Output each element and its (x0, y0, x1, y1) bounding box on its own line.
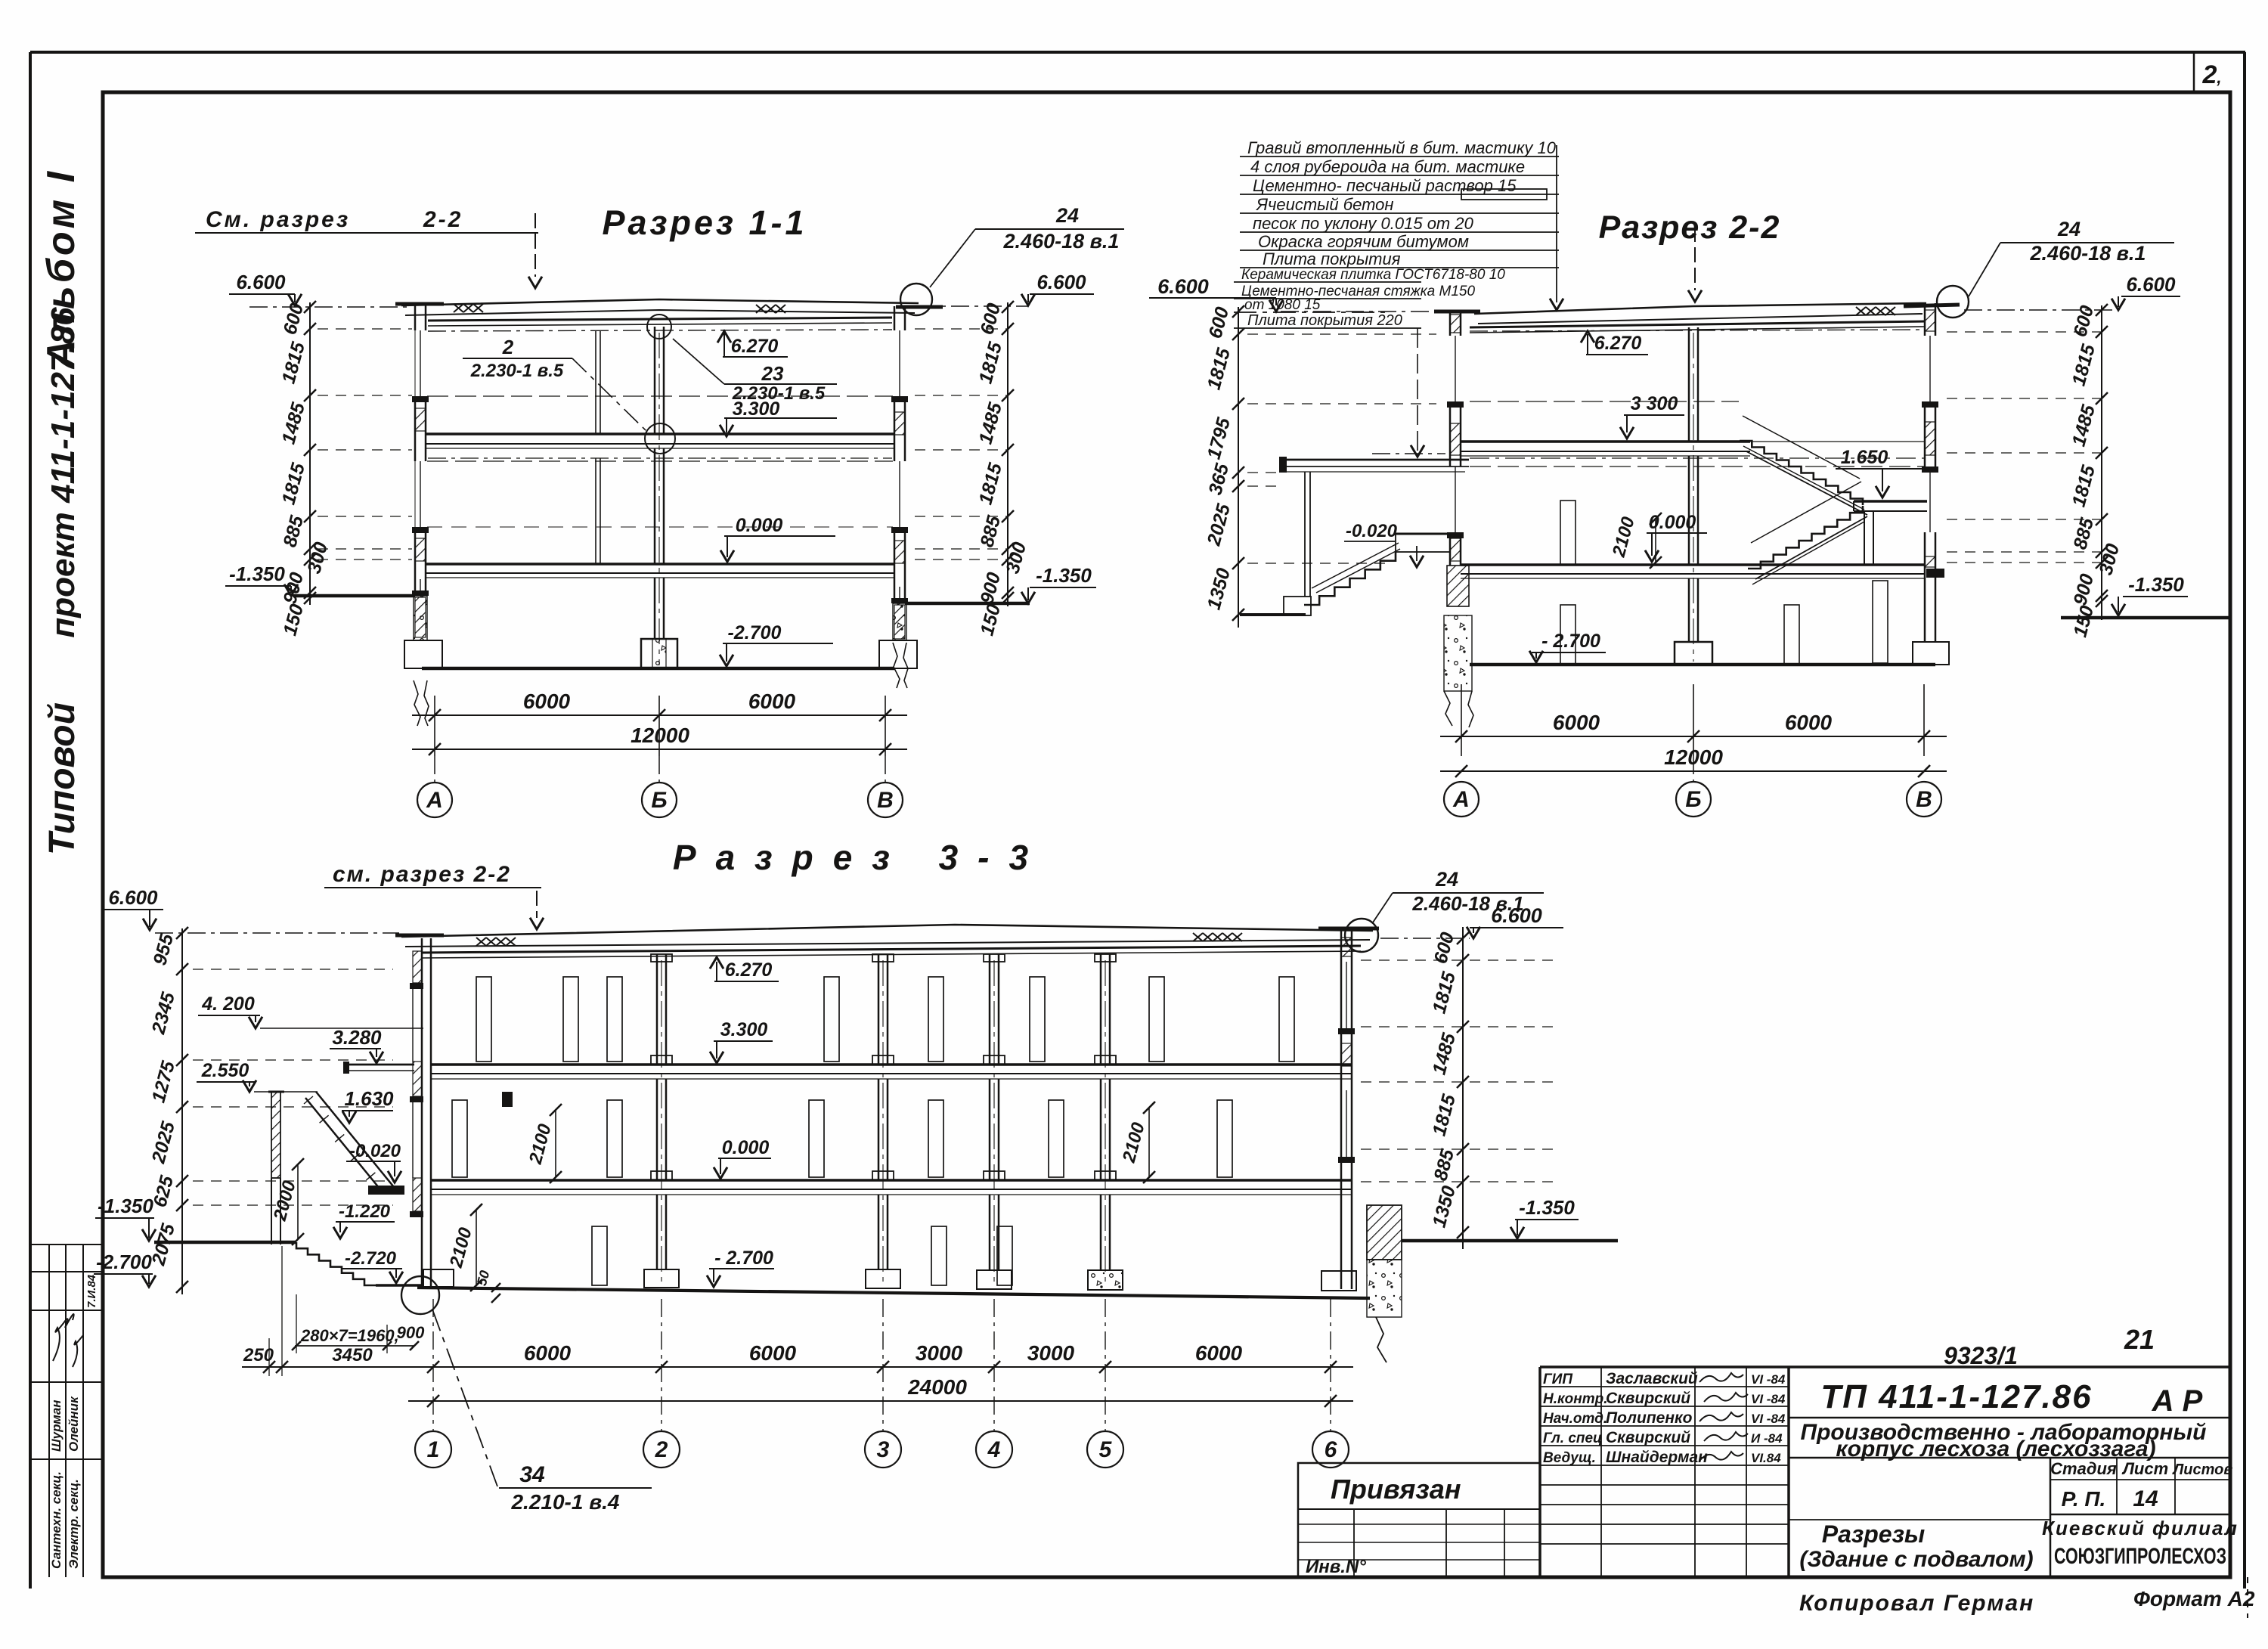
svg-text:3000: 3000 (916, 1341, 963, 1365)
svg-text:6.270: 6.270 (731, 336, 779, 357)
1-1 callout circle node at 3.300 (645, 423, 675, 454)
svg-text:Разрезы: Разрезы (1822, 1520, 1925, 1548)
svg-text:Инв.N°: Инв.N° (1306, 1557, 1366, 1577)
3-3 top floor door frames (476, 977, 491, 1062)
svg-text:900: 900 (397, 1323, 425, 1342)
svg-text:Заславский: Заславский (1606, 1370, 1698, 1387)
svg-text:Копировал Герман: Копировал Герман (1799, 1591, 2034, 1616)
3-3 right chain level leaders (1361, 959, 1557, 961)
svg-text:2: 2 (655, 1437, 668, 1462)
svg-text:Стадия: Стадия (2050, 1459, 2117, 1478)
svg-text:6: 6 (1325, 1437, 1337, 1462)
2-2 porch canopy (1281, 459, 1469, 461)
svg-text:-1.350: -1.350 (2128, 573, 2184, 596)
svg-text:Типовой: Типовой (42, 702, 82, 855)
svg-text:- 2.700: - 2.700 (1541, 631, 1600, 652)
3-3 roof hatch strips (476, 938, 486, 946)
svg-text:3.300: 3.300 (720, 1019, 768, 1040)
2-2 right chain level leaders (1947, 331, 2102, 333)
roof note leader arrow (1556, 145, 1557, 302)
svg-text:Окраска горячим битумом: Окраска горячим битумом (1258, 232, 1469, 251)
svg-text:Разрез 3-3: Разрез 3-3 (673, 838, 1048, 877)
2-2 ceiling slab (1470, 321, 1925, 327)
stage/sheet sub-table (1789, 1519, 2050, 1520)
2-2 left dimension chain (1238, 307, 1239, 628)
2-2 interior door frames (1560, 501, 1576, 565)
2-2 landing support wall (1864, 511, 1865, 565)
svg-text:корпус лесхоза (лесхоззага): корпус лесхоза (лесхоззага) (1836, 1437, 2155, 1461)
svg-text:А Р: А Р (2152, 1384, 2203, 1418)
svg-text:6.270: 6.270 (1594, 333, 1642, 354)
svg-text:4 слоя рубероида на бит.: 4 слоя рубероида на бит. мастике (1250, 157, 1525, 176)
2-2 porch entrance landing (1396, 533, 1450, 535)
signature squiggles (1699, 1373, 1743, 1382)
3-3 vertical dim 2000 (297, 1164, 299, 1239)
svg-text:Р. П.: Р. П. (2062, 1487, 2106, 1511)
svg-text:Шнайдерман: Шнайдерман (1606, 1449, 1708, 1466)
svg-text:34: 34 (519, 1462, 545, 1487)
svg-text:Ведущ.: Ведущ. (1543, 1450, 1596, 1466)
3-3 axis circles (432, 1299, 434, 1430)
section 2-2 cut mark over 1-1 (534, 213, 536, 277)
1-1 wall foundations below ground (414, 596, 427, 640)
svg-text:Нач.отд.: Нач.отд. (1543, 1411, 1607, 1427)
svg-text:2.460-18 в.1: 2.460-18 в.1 (1411, 892, 1523, 915)
2-2 bottom dimension row 6000+6000 (1461, 684, 1462, 756)
1-1 roof hatch strips (454, 304, 463, 312)
2-2 left wall А (1449, 312, 1452, 336)
1-1 axis circles (434, 756, 435, 783)
svg-text:VI.84: VI.84 (1751, 1451, 1781, 1465)
2-2 axis circles (1693, 756, 1694, 782)
svg-text:5: 5 (1099, 1437, 1113, 1462)
3-3 bottom dimension row 24000 (408, 1400, 1353, 1402)
2-2 basement floor (1470, 663, 1935, 667)
svg-text:3.300: 3.300 (733, 398, 780, 420)
3-3 roof slab (401, 925, 1373, 937)
1-1 bottom dimension row 6000+6000 (434, 696, 435, 756)
svg-text:-1.350: -1.350 (98, 1195, 153, 1217)
svg-text:3 300: 3 300 (1631, 393, 1678, 414)
svg-text:2-2: 2-2 (423, 207, 463, 232)
1-1 second floor slab 3.300 (426, 432, 894, 435)
1-1 ground line right (905, 602, 1030, 606)
attachment table Привязан (1298, 1463, 1540, 1577)
1-1 callout circle node 2 top (647, 315, 671, 339)
svg-text:А: А (426, 788, 443, 813)
2-2 column Б footing (1675, 642, 1712, 665)
2-2 porch pedestal (1284, 597, 1311, 615)
1-1 ceiling slab (428, 318, 892, 321)
signature table lower empty rows (1540, 1484, 1789, 1486)
2-2 stair upper flight (1740, 441, 1863, 505)
3-3 floor slab 3.300 (431, 1063, 1352, 1066)
3-3 vertical dims 2100 (555, 1110, 556, 1177)
2-2 right dimension chain (2101, 305, 2102, 620)
svg-text:-1.220: -1.220 (339, 1201, 391, 1222)
1-1 left wall А (414, 305, 417, 330)
2-2 floor slab 0.000 (1461, 563, 1925, 566)
svg-text:Формат А2: Формат А2 (2133, 1587, 2255, 1610)
1-1 first floor slab 0.000 (426, 563, 894, 566)
svg-text:-2.700: -2.700 (96, 1251, 152, 1273)
svg-text:ТП 411-1-127.86: ТП 411-1-127.86 (1820, 1378, 2092, 1415)
svg-text:-0.020: -0.020 (349, 1141, 401, 1161)
1-1 left dimension chain (309, 302, 311, 605)
2-2 roof hatch strip (1856, 307, 1866, 315)
svg-text:VI -84: VI -84 (1751, 1412, 1786, 1426)
page number box top-right (2193, 52, 2195, 92)
svg-text:2.460-18 в.1: 2.460-18 в.1 (2030, 242, 2146, 265)
3-3 axis centerlines (661, 960, 662, 1285)
1-1 suspended ceiling line 6.270 (428, 330, 892, 331)
1-1 right wall В (894, 306, 896, 330)
svg-text:В: В (877, 788, 894, 813)
3-3 basement floor -2.700 (417, 1288, 1370, 1298)
2-2 ground line right (2061, 616, 2232, 620)
svg-text:1.630: 1.630 (344, 1087, 394, 1110)
right edge dashed mark (2247, 1577, 2248, 1618)
1-1 left level line 6.600 (249, 306, 412, 308)
svg-text:ГИП: ГИП (1543, 1372, 1572, 1387)
1-1 basement floor -2.700 (422, 667, 894, 671)
svg-text:Ячеистый бетон: Ячеистый бетон (1256, 195, 1394, 214)
sheet outer border (30, 51, 2245, 54)
3-3 ground line left (154, 1241, 296, 1244)
2-2 ground line at porch (1240, 613, 1306, 616)
svg-text:6.270: 6.270 (725, 959, 773, 981)
svg-text:2.210-1 в.4: 2.210-1 в.4 (510, 1490, 619, 1514)
svg-text:Привязан: Привязан (1331, 1474, 1461, 1505)
svg-text:2.550: 2.550 (201, 1060, 249, 1081)
svg-text:1: 1 (427, 1437, 440, 1462)
signature scribbles (53, 1314, 74, 1361)
2-2 right wall В (1924, 303, 1926, 336)
2-2 interior level dash lines (1470, 401, 1739, 402)
2-2 left chain level leaders (1247, 333, 1436, 335)
3-3 wall axis 6 (1340, 931, 1343, 1289)
project code cell ТП 411-1-127.86 АР (1789, 1417, 2230, 1419)
svg-text:6000: 6000 (1785, 711, 1833, 734)
svg-text:6.600: 6.600 (1036, 271, 1086, 293)
svg-text:-1.350: -1.350 (1036, 564, 1092, 587)
svg-text:-1.350: -1.350 (1519, 1196, 1575, 1219)
svg-text:Гравий втопленный в бит. м: Гравий втопленный в бит. мастику 10 (1247, 138, 1557, 157)
svg-text:Сквирский: Сквирский (1606, 1429, 1690, 1446)
title block outer borders (1540, 1365, 2230, 1368)
svg-text:VI -84: VI -84 (1751, 1372, 1786, 1387)
svg-text:6000: 6000 (749, 1341, 797, 1365)
project name cell (1789, 1457, 2230, 1459)
svg-text:-0.020: -0.020 (1346, 521, 1398, 541)
svg-text:24: 24 (1435, 868, 1458, 891)
svg-text:0.000: 0.000 (736, 515, 783, 536)
3-3 column axis x=1462 (1100, 954, 1102, 1065)
svg-text:2.460-18 в.1: 2.460-18 в.1 (1003, 230, 1120, 253)
3-3 ground line right (1402, 1239, 1618, 1243)
3-3 entrance retaining wall (271, 1092, 280, 1178)
1-1 left wall sills (412, 396, 429, 402)
svg-text:2.230-1 в.5: 2.230-1 в.5 (470, 361, 564, 381)
3-3 callout 24 / 2.460-18 в.1 (1345, 919, 1378, 952)
2-2 bottom dimension row 12000 (1440, 770, 1947, 772)
svg-text:-1.350: -1.350 (229, 563, 285, 585)
1-1 bottom dimension row 12000 (412, 749, 907, 750)
svg-text:Олейник: Олейник (67, 1396, 81, 1452)
1-1 interior partitions (595, 331, 596, 434)
bottom-left signature table (31, 1244, 103, 1245)
2-2 porch post (1304, 472, 1306, 597)
svg-text:6.600: 6.600 (236, 271, 286, 293)
svg-text:Плита покрытия: Плита покрытия (1263, 250, 1401, 268)
3-3 column axis x=1315 (989, 954, 991, 1065)
1-1 right dimension chain (1007, 302, 1009, 606)
2-2 floor slab 3.300 (1461, 440, 1750, 443)
svg-text:0.000: 0.000 (722, 1137, 770, 1158)
svg-text:23: 23 (761, 362, 784, 385)
svg-text:И -84: И -84 (1751, 1431, 1783, 1446)
3-3 partition black block (502, 1092, 513, 1107)
svg-text:3: 3 (877, 1437, 890, 1462)
3-3 entrance stair flight (316, 1092, 394, 1187)
2-2 roof parapet caps (1434, 310, 1480, 314)
svg-text:6000: 6000 (748, 690, 796, 713)
svg-text:проект 411-1-127.86: проект 411-1-127.86 (45, 307, 82, 638)
3-3 roof parapet caps (395, 934, 444, 938)
svg-text:См. разрез: См. разрез (206, 207, 350, 232)
2-2 porch steps (1304, 552, 1396, 605)
svg-text:Листов: Листов (2172, 1461, 2233, 1478)
svg-text:Электр. секц.: Электр. секц. (67, 1479, 81, 1569)
svg-text:12000: 12000 (631, 724, 689, 747)
svg-text:см. разрез 2-2: см. разрез 2-2 (333, 862, 511, 887)
svg-text:Сквирский: Сквирский (1606, 1390, 1690, 1407)
svg-text:Полипенко: Полипенко (1606, 1409, 1693, 1427)
svg-text:6000: 6000 (523, 690, 571, 713)
svg-text:песок по уклону 0.015 от: песок по уклону 0.015 от 20 (1253, 214, 1474, 233)
svg-text:Плита покрытия 220: Плита покрытия 220 (1247, 312, 1402, 329)
svg-text:В: В (1916, 787, 1932, 812)
svg-text:Разрез 2-2: Разрез 2-2 (1599, 209, 1781, 246)
svg-text:Разрез 1-1: Разрез 1-1 (602, 203, 807, 242)
3-3 callout 34 / 2.210-1 в.4 (401, 1276, 439, 1314)
svg-text:4. 200: 4. 200 (201, 993, 255, 1015)
1-1 axis Б centerline (658, 333, 660, 665)
svg-text:А: А (1452, 787, 1470, 812)
svg-text:3450: 3450 (332, 1345, 373, 1365)
svg-text:280×7=1960,: 280×7=1960, (300, 1326, 399, 1345)
svg-text:Шурман: Шурман (49, 1399, 64, 1452)
3-3 floor slab 0.000 (431, 1179, 1352, 1182)
svg-text:9323/1: 9323/1 (1944, 1342, 2018, 1369)
3-3 left dimension chain (181, 928, 183, 1294)
svg-text:Киевский филиал: Киевский филиал (2042, 1517, 2239, 1539)
3-3 wall axis 1 (421, 938, 423, 1288)
svg-text:Н.контр.: Н.контр. (1543, 1391, 1608, 1407)
3-3 column axis x=875 (656, 954, 658, 1065)
1-1 wall below-ground hatch (415, 597, 426, 637)
1-1 roof slab (401, 299, 919, 305)
2-2 cut mark for section 3-3 (1694, 227, 1696, 290)
3-3 ceiling slab (422, 946, 1361, 953)
1-1 left wall hatch pieces (415, 408, 426, 431)
2-2 axis Б centerline (1693, 333, 1694, 662)
svg-text:24: 24 (2057, 218, 2081, 240)
3-3 column axis x=1168 (878, 954, 880, 1065)
svg-text:2: 2 (502, 336, 514, 358)
svg-text:3.280: 3.280 (332, 1026, 382, 1049)
svg-text:6.600: 6.600 (2126, 273, 2176, 296)
svg-text:3000: 3000 (1027, 1341, 1075, 1365)
svg-text:Гл. спец: Гл. спец (1543, 1430, 1602, 1446)
svg-text:6.600: 6.600 (1157, 275, 1209, 298)
2-2 stair railings (1743, 416, 1860, 479)
svg-text:Керамическая плитка ГОСТ6718-8: Керамическая плитка ГОСТ6718-80 10 (1241, 267, 1505, 283)
1-1 column Б footing (641, 639, 677, 668)
svg-text:24000: 24000 (907, 1375, 967, 1399)
3-3 exterior basement steps (296, 1242, 376, 1285)
svg-text:Цементно- песчаный раствор: Цементно- песчаный раствор 15 (1253, 176, 1517, 195)
svg-text:Лист: Лист (2121, 1459, 2168, 1478)
svg-text:-2.720: -2.720 (345, 1248, 397, 1269)
3-3 entrance lower landing (368, 1186, 404, 1195)
1-1 right wall sills (891, 396, 908, 402)
3-3 wall 6 below ground (1367, 1205, 1402, 1260)
3-3 column footings (423, 1269, 454, 1287)
1-1 left chain level leaders (318, 328, 412, 330)
svg-text:Б: Б (651, 788, 667, 813)
2-2 column Б (1688, 327, 1690, 442)
1-1 ground line left (293, 594, 415, 598)
1-1 wall footings (404, 640, 442, 668)
2-2 left wall below ground (1447, 566, 1469, 606)
svg-text:Сантехн. секц.: Сантехн. секц. (49, 1471, 64, 1569)
svg-text:1.650: 1.650 (1841, 447, 1888, 468)
svg-text:4: 4 (987, 1437, 1001, 1462)
3-3 left chain level leaders (193, 969, 393, 970)
svg-text:21: 21 (2124, 1324, 2155, 1355)
1-1 roof parapet caps (395, 302, 444, 306)
svg-text:(Здание с подвалом): (Здание с подвалом) (1799, 1547, 2033, 1572)
1-1 interior level dash lines (427, 395, 893, 397)
3-3 entrance canopy 3.280 (346, 1064, 414, 1066)
signature table columns (1600, 1367, 1602, 1577)
svg-text:Б: Б (1685, 787, 1701, 812)
svg-text:6.600: 6.600 (108, 886, 158, 909)
1-1 right chain level leaders (915, 328, 1008, 330)
svg-text:от 1080 15: от 1080 15 (1244, 297, 1321, 313)
2-2 roof slab (1474, 303, 1926, 314)
svg-text:6000: 6000 (1195, 1341, 1243, 1365)
svg-text:- 2.700: - 2.700 (714, 1248, 773, 1269)
3-3 middle floor door frames (452, 1100, 467, 1177)
svg-text:VI -84: VI -84 (1751, 1392, 1786, 1406)
svg-text:6000: 6000 (1553, 711, 1600, 734)
floor note leader arrow (1417, 328, 1418, 451)
svg-text:6000: 6000 (524, 1341, 572, 1365)
aerated concrete legend bar (1461, 189, 1547, 200)
3-3 basement door frames (592, 1226, 607, 1285)
2-2 stair mid landing 1.650 (1854, 500, 1927, 503)
2-2 porch railing (1312, 543, 1399, 588)
svg-text:14: 14 (2133, 1486, 2158, 1511)
1-1 column Б (654, 327, 656, 434)
3-3 right dimension chain (1462, 927, 1464, 1249)
svg-text:7.И.84: 7.И.84 (85, 1274, 98, 1308)
svg-text:24: 24 (1055, 204, 1079, 227)
2-2 stair lower flight (1748, 506, 1863, 569)
svg-text:СОЮЗГИПРОЛЕСХОЗ: СОЮЗГИПРОЛЕСХОЗ (2054, 1544, 2226, 1569)
svg-text:-2.700: -2.700 (728, 622, 782, 643)
2-2 В wall footing (1913, 642, 1949, 665)
signature table rows (1540, 1386, 1789, 1387)
